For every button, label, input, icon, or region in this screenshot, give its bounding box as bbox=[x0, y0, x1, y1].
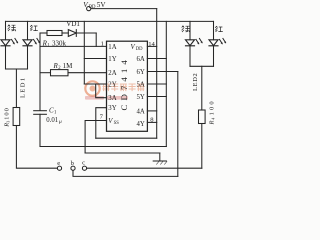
watermark logo bbox=[85, 81, 144, 99]
label green LED1 bbox=[8, 25, 16, 32]
svg-text:4A: 4A bbox=[137, 108, 145, 115]
svg-text:330k: 330k bbox=[52, 39, 67, 47]
wire 5Y bbox=[147, 96, 166, 98]
svg-text:5A: 5A bbox=[137, 82, 145, 89]
resistor R1 bbox=[40, 31, 68, 36]
wire LED2 join bbox=[190, 65, 214, 67]
wire ground bus riser bbox=[165, 21, 167, 146]
wire ground return bbox=[40, 146, 166, 148]
wire VDD feed bbox=[91, 8, 157, 10]
svg-text:1A: 1A bbox=[108, 44, 116, 51]
label red LED2 bbox=[215, 26, 223, 32]
wire VD1 bus bbox=[83, 21, 85, 84]
label R4 100 bbox=[209, 99, 216, 125]
svg-text:100: 100 bbox=[4, 107, 11, 120]
svg-text:5V: 5V bbox=[97, 1, 107, 9]
wire to ground symbol bbox=[85, 152, 160, 154]
wire VD1 to pin1 bbox=[95, 33, 97, 46]
wire green LED2 anode bbox=[189, 21, 191, 39]
wire R3 to e bbox=[16, 126, 57, 169]
svg-text:2A: 2A bbox=[108, 70, 116, 77]
label VDD 5V bbox=[83, 1, 106, 10]
label 0.01u bbox=[46, 117, 62, 125]
svg-text:1: 1 bbox=[101, 41, 104, 48]
resistor R4 bbox=[199, 110, 206, 124]
svg-text:3A: 3A bbox=[108, 95, 116, 102]
wire LED1 join bbox=[6, 68, 28, 70]
node e terminal bbox=[57, 166, 61, 170]
node c terminal bbox=[82, 166, 86, 170]
node VDD terminal bbox=[87, 7, 91, 11]
IC U1 CD7414 bbox=[107, 41, 148, 131]
label C1 bbox=[49, 106, 57, 115]
svg-text:100: 100 bbox=[209, 99, 216, 115]
svg-text:4Y: 4Y bbox=[137, 121, 145, 128]
svg-text:0.01: 0.01 bbox=[46, 117, 58, 124]
wire 1Y bbox=[84, 58, 106, 60]
svg-text:3Y: 3Y bbox=[108, 105, 116, 112]
wire red LED1 anode bbox=[27, 21, 29, 39]
wire C1 to ground line bbox=[39, 114, 41, 146]
wire 4A stub bbox=[147, 110, 156, 112]
svg-text:2Y: 2Y bbox=[108, 82, 116, 89]
LED LED1 green bbox=[1, 38, 18, 45]
wire top rail bbox=[6, 20, 214, 22]
svg-text:14: 14 bbox=[148, 41, 155, 48]
svg-text:6A: 6A bbox=[137, 56, 145, 63]
wire VSS bbox=[85, 121, 106, 154]
capacitor C1 bbox=[34, 111, 47, 115]
wire R4 to c line bbox=[201, 124, 203, 169]
wire b to 6Y bus bbox=[73, 170, 178, 176]
svg-text:μ: μ bbox=[59, 119, 62, 125]
svg-text:VD1: VD1 bbox=[66, 20, 80, 28]
node b terminal bbox=[71, 166, 75, 170]
wire left bus R1/C1 bbox=[39, 33, 41, 110]
svg-text:e: e bbox=[57, 160, 60, 167]
label VSS bbox=[108, 118, 119, 126]
svg-text:SS: SS bbox=[114, 121, 120, 126]
wire green LED1 anode bbox=[5, 21, 7, 39]
wire green LED1 cathode bbox=[5, 46, 7, 69]
wire 3Y bbox=[96, 108, 107, 139]
wire 2Y to 3A bbox=[96, 84, 107, 98]
diode VD1 bbox=[68, 30, 96, 37]
wire 6Y bbox=[147, 71, 177, 73]
wire pin1 1A bbox=[40, 45, 107, 47]
resistor R3 bbox=[13, 108, 20, 126]
label green LED2 bbox=[182, 26, 190, 33]
LED LED2 red bbox=[209, 38, 226, 45]
wire red LED2 cathode bbox=[213, 46, 215, 67]
label R2 1M bbox=[53, 62, 74, 71]
wire pin14 bbox=[147, 45, 156, 47]
svg-text:DD: DD bbox=[89, 5, 96, 10]
wire 4Y stub bbox=[147, 121, 156, 123]
svg-text:LED2: LED2 bbox=[192, 73, 199, 91]
wire red LED2 anode bbox=[213, 21, 215, 39]
svg-text:CD7414: CD7414 bbox=[119, 56, 129, 110]
wire 6A bbox=[147, 58, 166, 60]
label VDD pin bbox=[131, 44, 144, 52]
svg-text:LED1: LED1 bbox=[19, 76, 26, 98]
wire 6Y to b bus bbox=[177, 72, 179, 177]
svg-text:1M: 1M bbox=[63, 62, 74, 70]
wire green LED2 cathode bbox=[189, 46, 191, 67]
LED LED1 red bbox=[23, 38, 40, 45]
wire feedback bbox=[96, 137, 157, 139]
svg-text:1Y: 1Y bbox=[108, 56, 116, 63]
label red LED1 bbox=[30, 25, 38, 31]
wire 2Y bbox=[84, 83, 106, 85]
wire c to R4 bbox=[87, 167, 202, 169]
wire red LED1 cathode bbox=[27, 46, 29, 69]
LED LED2 green bbox=[186, 38, 203, 45]
wire LED1 to R3 bbox=[15, 69, 17, 108]
ground bbox=[153, 153, 167, 164]
svg-text:6Y: 6Y bbox=[137, 69, 145, 76]
svg-text:c: c bbox=[82, 160, 85, 167]
wire pin14 riser bbox=[156, 9, 158, 139]
wire 5A bbox=[147, 83, 166, 85]
label R1 330k bbox=[42, 39, 67, 48]
svg-text:DD: DD bbox=[136, 47, 143, 52]
wire LED2 to R4 bbox=[201, 66, 203, 110]
svg-text:5Y: 5Y bbox=[137, 94, 145, 101]
label R3 100 bbox=[4, 107, 11, 128]
resistor R2 bbox=[40, 70, 107, 76]
